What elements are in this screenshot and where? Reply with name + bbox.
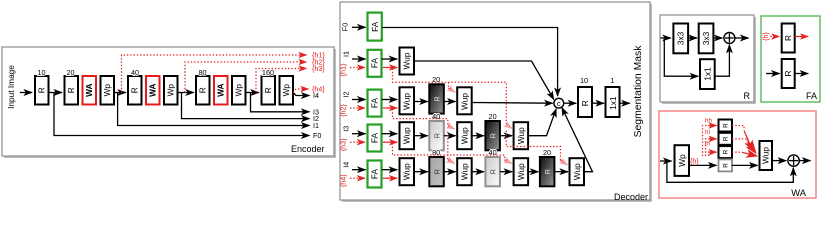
row F0 FA box [368,13,382,41]
legend WA black arrow R4 to Wup [732,164,758,166]
svg-text:R: R [543,169,552,174]
legend R arrow [713,37,722,39]
svg-text:80: 80 [432,148,440,157]
svg-text:{h3}: {h3} [312,64,325,73]
row I4 Wup3 [514,158,529,185]
legend WA red converge wires [732,126,744,131]
row I1 wire to concat [414,61,554,100]
legend WA R stack box lh [719,146,733,158]
svg-text:I3: I3 [342,126,351,132]
svg-text:Wp: Wp [166,84,176,97]
svg-text:FA: FA [370,132,380,143]
svg-text:10: 10 [37,68,45,77]
legend FA red output arrow [795,36,809,38]
row I3 Wup1 [400,122,415,149]
encoder group box [2,47,336,158]
svg-text:3x3: 3x3 [701,31,711,45]
row I4 R 40 [485,148,500,186]
wire E3-E4 [178,92,194,94]
row I4 R 20 [540,148,555,186]
svg-text:Wup: Wup [760,147,770,164]
legend FA box R top [782,24,795,53]
svg-text:WA: WA [216,84,226,97]
svg-text:1x1: 1x1 [608,96,618,110]
svg-text:R: R [723,149,730,154]
wire input arrow [20,92,32,94]
row I3 FA outputs [382,133,398,135]
row I2 arrow [414,101,428,103]
wire R to 1x1 [592,102,604,104]
row I1 FA outputs [382,58,398,60]
row I4 FA outputs [382,169,398,171]
legend WA output arrow [799,160,811,162]
svg-text:Wup: Wup [516,127,526,144]
legend R box 3x3 b [699,24,714,54]
svg-text:hl: hl [705,129,710,136]
svg-text:c: c [557,99,561,108]
svg-text:F0: F0 [313,131,321,140]
encoder block E5: R Wp (160) [262,68,294,105]
svg-text:1: 1 [610,76,614,85]
svg-text:WA: WA [791,187,807,198]
svg-text:Wup: Wup [401,163,411,180]
row I4 arrow [444,171,456,173]
legend R wire 1x1 to plus [715,45,730,76]
svg-text:20: 20 [489,112,497,121]
legend R arrow [688,37,697,39]
row I4 arrow [554,171,568,173]
legend R branch wire to 1x1 [664,38,698,76]
svg-text:{h3}: {h3} [339,138,348,151]
decoder group box [340,2,652,202]
svg-text:R: R [488,169,497,174]
wire h4 red [293,89,309,93]
svg-text:3x3: 3x3 [676,31,686,45]
svg-text:R: R [723,123,730,128]
svg-text:R: R [783,71,793,77]
svg-text:{h1}: {h1} [339,63,348,76]
row F0 wire to concat [382,28,558,97]
svg-text:R: R [488,133,497,138]
row I2 FA [368,90,382,117]
row I2 wire to concat [472,102,552,105]
legend WA bypass wire [667,161,793,182]
svg-text:FA: FA [370,97,380,108]
svg-text:R: R [130,87,140,93]
row I4 wire to concat [562,108,593,172]
svg-text:{h}: {h} [761,32,770,41]
row I4 arrow [414,171,428,173]
legend R plus node [724,33,735,44]
row I3 Wup2 [457,122,472,149]
svg-text:1x1: 1x1 [702,67,712,81]
svg-text:Wup: Wup [460,163,470,180]
svg-text:hh: hh [705,118,712,125]
row I2 Wup2 [457,87,472,114]
svg-text:Wup: Wup [401,52,411,69]
svg-text:Wup: Wup [572,163,582,180]
wire E4-E5 [246,92,259,94]
svg-text:{h4}: {h4} [339,174,348,187]
row I3 arrow [500,135,512,137]
legend FA red input arrow [771,36,780,38]
svg-text:20: 20 [543,148,551,157]
row I4 arrow [500,171,512,173]
svg-text:R: R [432,169,441,174]
wire output I4 [293,93,310,96]
legend WA box Wup [760,141,773,170]
svg-text:R: R [723,163,730,168]
node concat c [554,98,564,108]
row I3 arrow [414,135,428,137]
row I3 R 40 [429,112,444,150]
legend FA black output arrow [795,73,809,75]
legend WA plus node [788,155,799,166]
encoder block E3: R WA Wp (40) [128,68,178,105]
row I4 Wup4 [570,158,585,185]
svg-text:FA: FA [806,91,817,101]
svg-text:R: R [263,87,273,93]
svg-text:F0: F0 [341,23,350,31]
row I3 FA [368,125,382,152]
legend R box 1x1 [700,59,715,89]
svg-text:FA: FA [370,57,380,68]
svg-text:Segmentation Mask: Segmentation Mask [633,45,644,138]
legend WA R stack box hl [719,133,733,145]
legend R output arrow [735,37,749,39]
wire skip I3 [251,93,310,112]
legend WA wire Wp to R4 [689,164,717,166]
svg-text:FA: FA [370,21,380,32]
row I2 Wup1 [400,87,415,114]
legend R group box [660,15,756,104]
row I4 arrow [472,171,484,173]
svg-text:I3: I3 [313,107,319,116]
row I1 FA [368,50,382,77]
row I4 FA [368,161,382,188]
wire c to R [564,102,577,104]
svg-text:Input Image: Input Image [6,65,16,109]
svg-text:{h4}: {h4} [312,85,325,94]
row I1 arrows into FA [352,58,366,60]
svg-text:10: 10 [580,76,588,85]
svg-text:Wp: Wp [281,84,291,97]
row I3 wire to concat [529,109,557,136]
svg-text:Wup: Wup [401,93,411,110]
svg-text:R: R [432,96,441,101]
svg-text:Decoder: Decoder [614,192,648,202]
svg-text:Wup: Wup [460,127,470,144]
svg-text:80: 80 [198,68,206,77]
svg-text:WA: WA [148,84,158,97]
svg-text:40: 40 [131,68,139,77]
legend FA black input arrow [766,73,780,75]
row I1 Wup [400,48,415,75]
legend WA group box [659,111,816,198]
row I3 arrow [444,135,456,137]
box R 10 [578,76,592,117]
svg-text:Wp: Wp [677,154,687,167]
legend WA box Wp [675,145,690,176]
wire skip I1 [118,93,310,126]
wire output [620,102,629,104]
svg-text:I4: I4 [342,162,351,168]
row I2 FA outputs [382,99,398,101]
svg-text:I1: I1 [342,51,351,57]
legend FA group box [761,16,820,102]
legend R input arrow [661,37,671,39]
wire h3 red [256,69,307,93]
legend FA box R bottom [782,59,795,88]
row I3 arrows into FA [352,133,366,135]
row I4 arrows into FA [352,169,366,171]
svg-text:Wp: Wp [102,84,112,97]
svg-text:Encoder: Encoder [291,144,325,154]
wire E1-E2 [49,92,63,94]
legend R box 3x3 a [673,24,688,54]
legend WA R stack box low [719,159,733,171]
encoder block E2: R WA Wp (20) [65,68,115,105]
row I3 Wup3 [514,122,529,149]
svg-text:FA: FA [370,168,380,179]
svg-text:160: 160 [262,68,274,77]
row I4 Wup1 [400,158,415,185]
svg-text:{h}: {h} [690,157,699,166]
svg-text:40: 40 [489,148,497,157]
encoder block E1 R [35,68,49,105]
svg-text:R: R [66,87,76,93]
svg-text:R: R [198,87,208,93]
legend WA R stack box hh [719,120,733,132]
svg-text:R: R [783,35,793,41]
row I2 arrows into FA [352,99,366,101]
svg-text:Wup: Wup [460,93,470,110]
legend WA red risers [703,126,711,157]
legend WA input arrow [660,160,672,162]
wire skip I2 [182,93,310,119]
legend WA wire Wup to plus [772,160,786,162]
wire h2 red [185,62,307,93]
svg-text:I2: I2 [342,92,351,98]
svg-text:Wup: Wup [401,127,411,144]
svg-text:Wp: Wp [234,84,244,97]
svg-text:R: R [432,133,441,138]
svg-text:lh: lh [705,141,710,148]
svg-text:{h2}: {h2} [339,104,348,117]
wire skip F0 [54,93,310,136]
wire E2-E3 [114,92,126,94]
row F0 arrow to FA [352,26,366,28]
row I3 R 20 [485,112,500,150]
box 1x1 [606,76,620,117]
svg-text:Wup: Wup [516,163,526,180]
encoder block E4: R WA Wp (80) [196,68,246,105]
svg-text:R: R [580,100,590,106]
svg-text:20: 20 [66,68,74,77]
row I2 R 20 [429,75,444,114]
row I4 arrow [529,171,539,173]
red web h3 distribution [393,143,505,159]
svg-text:R: R [37,87,47,93]
svg-text:WA: WA [84,84,94,97]
svg-text:R: R [723,136,730,141]
svg-text:40: 40 [432,112,440,121]
row I2 arrow [444,101,456,103]
row I3 arrow [472,135,484,137]
svg-text:R: R [744,91,751,101]
row I4 R 80 [429,148,444,186]
wire h1 red [122,55,307,93]
red web h2 distribution [393,109,448,125]
row I4 Wup2 [457,158,472,185]
red web h1 distribution [393,69,507,125]
